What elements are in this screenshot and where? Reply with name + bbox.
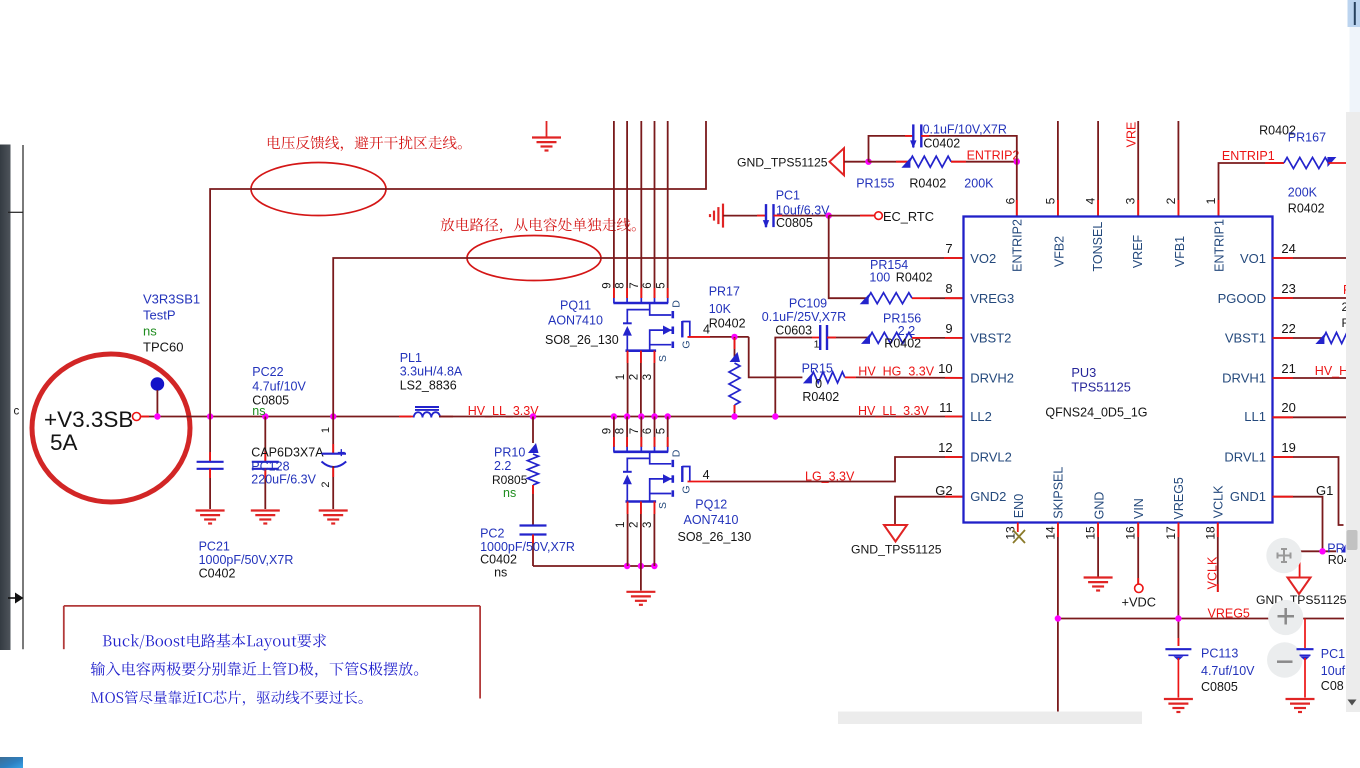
- junction gnd bus 1: [624, 563, 630, 569]
- label PU3: [1071, 365, 1131, 394]
- resistor PR15: [803, 372, 856, 384]
- svg-text:AON7410: AON7410: [684, 513, 739, 527]
- ground PC1: [710, 204, 723, 228]
- svg-text:PQ11: PQ11: [560, 299, 591, 313]
- svg-text:ns: ns: [252, 404, 265, 418]
- net label partial P pin23: [1342, 283, 1352, 330]
- svg-text:EC_RTC: EC_RTC: [883, 209, 934, 224]
- svg-text:1: 1: [615, 374, 627, 380]
- svg-text:LL2: LL2: [970, 409, 992, 424]
- label +VDC: [1122, 594, 1157, 609]
- note box line 3: [91, 691, 363, 706]
- net label VREG5: [1208, 607, 1250, 621]
- ground PC1xx right: [1286, 699, 1315, 712]
- svg-text:R0402: R0402: [896, 271, 933, 285]
- svg-text:5: 5: [655, 428, 667, 434]
- wire VREF pin3: [1137, 121, 1139, 217]
- pin number G1: [1316, 483, 1333, 498]
- transistor PQ12: [613, 447, 689, 502]
- svg-text:LS2_8836: LS2_8836: [400, 379, 457, 393]
- svg-text:PC1: PC1: [776, 189, 800, 203]
- svg-text:2: 2: [628, 374, 640, 380]
- capacitor C0402 0.1uF: [910, 124, 921, 148]
- net label HV_LL_3.3V left: [468, 404, 540, 418]
- svg-text:R0402: R0402: [909, 177, 946, 191]
- svg-text:19: 19: [1281, 440, 1295, 455]
- svg-text:9: 9: [945, 321, 952, 336]
- junction rail PR10: [530, 413, 536, 419]
- svg-text:17: 17: [1164, 526, 1178, 540]
- svg-text:ns: ns: [494, 566, 507, 580]
- ground pin15: [1084, 578, 1113, 591]
- svg-text:GND_TPS51125: GND_TPS51125: [851, 543, 942, 557]
- svg-text:VFB1: VFB1: [1173, 236, 1187, 267]
- svg-text:10: 10: [938, 361, 952, 376]
- svg-text:0.1uF/10V,X7R: 0.1uF/10V,X7R: [923, 123, 1007, 137]
- svg-text:DRVL2: DRVL2: [970, 449, 1012, 464]
- testpoint V3R3SB1 labels: [143, 292, 200, 355]
- capacitor PC113: [1165, 649, 1191, 697]
- resistor PR154: [860, 293, 930, 305]
- svg-text:8: 8: [615, 428, 627, 434]
- label R0402 top: [1259, 124, 1296, 138]
- wire PQ12 source 3: [653, 502, 655, 567]
- svg-text:15: 15: [1084, 526, 1098, 540]
- svg-text:VCLK: VCLK: [1211, 485, 1225, 518]
- junction PC1 EC_RTC: [826, 212, 832, 218]
- wire DRVH1 net: [1273, 377, 1347, 379]
- pin numbers PQ11 source: [615, 374, 654, 380]
- label PQ12: [678, 498, 752, 545]
- svg-text:8: 8: [945, 281, 952, 296]
- resistor PR155: [901, 156, 951, 168]
- svg-text:VO1: VO1: [1240, 251, 1266, 266]
- label 200K R0402 right: [1288, 185, 1325, 215]
- pin number 4 PQ12: [703, 468, 710, 482]
- ground PQ12 source: [626, 592, 655, 605]
- annotation ellipse 1: [251, 163, 386, 216]
- svg-text:2: 2: [320, 481, 332, 487]
- label PC22: [252, 365, 306, 418]
- svg-text:12: 12: [938, 440, 952, 455]
- wire PQ12 source 1: [627, 502, 629, 567]
- capacitor CAP6D3X7A polarized: [322, 417, 347, 510]
- wire PQ12 drain 7: [640, 417, 642, 448]
- resistor PR167: [1284, 157, 1346, 169]
- svg-text:CAP6D3X7A: CAP6D3X7A: [251, 446, 324, 460]
- label GND_TPS51125 top: [737, 156, 828, 170]
- right scrollbar track: [1346, 27, 1360, 712]
- pan button: [1266, 538, 1301, 573]
- svg-text:1000pF/50V,X7R: 1000pF/50V,X7R: [199, 553, 294, 567]
- inductor PL1: [399, 407, 453, 418]
- wire VBST2 net: [912, 337, 964, 339]
- ground arrow GND2: [884, 525, 907, 542]
- net label HV_HG_3.3V: [858, 365, 934, 379]
- resistor PR156: [861, 332, 912, 344]
- wire PQ11 drain 9: [613, 121, 615, 298]
- svg-text:+V3.3SB: +V3.3SB: [44, 407, 133, 432]
- label PR10: [492, 446, 528, 501]
- label PC113: [1201, 646, 1255, 694]
- sheet border line: [22, 145, 24, 649]
- svg-text:ENTRIP1: ENTRIP1: [1222, 149, 1275, 163]
- label PR15: [802, 362, 840, 404]
- junction VREG5 pin17: [1175, 615, 1181, 621]
- svg-text:PL1: PL1: [400, 351, 422, 365]
- svg-text:GND_TPS51125: GND_TPS51125: [1256, 593, 1347, 607]
- svg-text:HV_HG_3.3V: HV_HG_3.3V: [858, 365, 934, 379]
- wire gnd arrow to junction: [844, 161, 869, 163]
- wire VREG5 pin17: [1177, 523, 1179, 647]
- svg-text:5A: 5A: [50, 430, 78, 455]
- svg-text:8: 8: [615, 282, 627, 288]
- svg-text:23: 23: [1281, 281, 1295, 296]
- labels PQ11 D S G: [657, 300, 693, 362]
- wire PQ11 source 3: [653, 351, 655, 417]
- svg-text:C0603: C0603: [775, 324, 812, 338]
- label CAP6D3X7A PC128: [251, 446, 324, 487]
- pin number 4 PQ11: [703, 323, 710, 337]
- svg-text:PC22: PC22: [252, 365, 283, 379]
- transistor PQ11: [613, 298, 689, 351]
- junction rail PC128: [262, 413, 268, 419]
- label PC109: [762, 297, 846, 338]
- svg-text:1: 1: [814, 339, 820, 351]
- svg-text:D: D: [671, 300, 683, 308]
- svg-text:LG_3.3V: LG_3.3V: [805, 470, 855, 484]
- capacitor PC128: [252, 417, 279, 510]
- junction rail mosfet dots: [611, 413, 671, 419]
- wire PQ12 drain 8: [626, 417, 628, 448]
- svg-text:SKIPSEL: SKIPSEL: [1052, 467, 1066, 519]
- svg-text:DRVH1: DRVH1: [1222, 370, 1266, 385]
- svg-text:V3R3SB1: V3R3SB1: [143, 292, 200, 307]
- label PR156: [883, 312, 921, 351]
- pan arrow marker: [8, 593, 24, 604]
- junction rail testpoint: [154, 413, 160, 419]
- IC right pin numbers: [1281, 241, 1295, 455]
- zoom in button: [1268, 600, 1303, 635]
- wire PC2 to ground bus: [533, 565, 655, 567]
- svg-text:11: 11: [939, 400, 953, 415]
- resistor PR pin22 clipped: [1315, 333, 1360, 345]
- wire DRVL1 net: [1273, 457, 1344, 525]
- svg-text:20: 20: [1281, 400, 1295, 415]
- svg-text:C0402: C0402: [923, 137, 960, 151]
- svg-text:HV_LL_3.3V: HV_LL_3.3V: [858, 404, 930, 418]
- wire PQ11 drain 8: [626, 121, 628, 298]
- svg-text:0.1uF/25V,X7R: 0.1uF/25V,X7R: [762, 310, 846, 324]
- svg-text:PC113: PC113: [1201, 646, 1238, 660]
- svg-text:G2: G2: [935, 483, 952, 498]
- svg-text:PR15: PR15: [802, 362, 833, 376]
- label PC1xx right: [1321, 647, 1346, 693]
- capacitor PC1xx right: [1297, 649, 1314, 697]
- wire VFB2 feedback net: [210, 121, 706, 417]
- wire DRVL2 LG_3.3V net: [688, 457, 964, 482]
- wire PC109 branch: [775, 338, 819, 417]
- svg-text:TPC60: TPC60: [143, 340, 183, 355]
- IC right pin names: [1218, 251, 1266, 504]
- note text: discharge path annotation: [441, 218, 636, 233]
- net label ENTRIP1: [1222, 149, 1275, 163]
- svg-text:QFNS24_0D5_1G: QFNS24_0D5_1G: [1045, 405, 1147, 419]
- junction gnd bus 3: [651, 563, 657, 569]
- wire PQ11 source 1: [627, 351, 629, 417]
- net label VREF rotated: [1125, 122, 1139, 148]
- svg-text:VCLK: VCLK: [1206, 556, 1220, 589]
- svg-text:10K: 10K: [709, 302, 732, 316]
- svg-text:SO8_26_130: SO8_26_130: [678, 530, 752, 544]
- svg-text:DRVL1: DRVL1: [1224, 449, 1266, 464]
- svg-text:VREG3: VREG3: [970, 291, 1014, 306]
- svg-text:VIN: VIN: [1132, 498, 1146, 519]
- net label VCLK rotated: [1206, 556, 1220, 589]
- svg-text:VO2: VO2: [970, 251, 996, 266]
- label PR154: [869, 258, 932, 285]
- wire GND pin15: [1097, 523, 1099, 578]
- wire testpoint to rail: [156, 390, 158, 417]
- svg-text:6: 6: [642, 282, 654, 288]
- svg-text:VREG5: VREG5: [1172, 477, 1186, 519]
- wire VCLK pin18: [1217, 523, 1219, 593]
- svg-text:HV_H: HV_H: [1315, 364, 1348, 378]
- wire DRVH2 net: [856, 376, 964, 379]
- ground arrow right: [1288, 578, 1311, 595]
- svg-text:22: 22: [1281, 321, 1295, 336]
- wire LL1 net: [1273, 416, 1347, 418]
- junction rail PC109: [772, 413, 778, 419]
- wire PQ11 gate net: [688, 337, 803, 378]
- junction gnd bus 2: [638, 563, 644, 569]
- wire main rail mid segment: [439, 416, 964, 418]
- pin circle +VDC: [1135, 584, 1143, 592]
- junction rail PR17: [731, 413, 737, 419]
- wire GND1 net: [1273, 497, 1323, 552]
- junction VREG5 skipsel: [1055, 615, 1061, 621]
- svg-text:ns: ns: [503, 486, 516, 500]
- wire gnd to PC1: [723, 215, 766, 217]
- power pin +V3.3SB circle: [133, 413, 141, 421]
- svg-text:VRE: VRE: [1125, 122, 1139, 148]
- svg-text:ENTRIP1: ENTRIP1: [1213, 219, 1227, 272]
- testpoint dot: [151, 377, 165, 391]
- wire PQ12 drain 6: [654, 417, 656, 448]
- ground top: [532, 121, 561, 151]
- wire VFB2 pin5: [1057, 121, 1059, 217]
- label PC1: [776, 189, 830, 230]
- wire C0402 parallel branch: [869, 136, 914, 162]
- svg-text:EN0: EN0: [1012, 494, 1026, 518]
- svg-text:VREG5: VREG5: [1208, 607, 1250, 621]
- svg-text:G: G: [681, 340, 693, 348]
- labels PQ12 D S G: [657, 449, 693, 509]
- svg-text:PR17: PR17: [709, 285, 740, 299]
- wire GND2 net: [895, 497, 964, 525]
- bottom-left app icon: [0, 757, 23, 768]
- resistor PR10: [528, 417, 539, 525]
- svg-text:16: 16: [1124, 526, 1138, 540]
- right scrollbar thumb: [1347, 530, 1358, 550]
- svg-text:9: 9: [602, 282, 614, 288]
- wire PQ12 drain 9: [613, 417, 615, 448]
- wire PQ11 source 2: [640, 351, 642, 417]
- wire PQ11 drain 5: [667, 121, 669, 298]
- svg-text:VBST1: VBST1: [1225, 331, 1266, 346]
- svg-text:VREF: VREF: [1131, 234, 1145, 268]
- svg-text:D: D: [671, 449, 683, 457]
- wire VREG5 bus: [1058, 618, 1344, 620]
- svg-text:C0402: C0402: [199, 567, 236, 581]
- pin circle EC_RTC: [875, 212, 883, 220]
- svg-text:1: 1: [1204, 197, 1218, 204]
- pin numbers PQ11 drain: [602, 282, 668, 288]
- resistor PR clipped right: [1327, 542, 1350, 568]
- wire VO1 net: [1273, 257, 1347, 259]
- svg-text:9: 9: [602, 428, 614, 434]
- wire ENTRIP1 net: [1219, 163, 1284, 217]
- svg-text:PC2: PC2: [480, 527, 504, 541]
- svg-text:TestP: TestP: [143, 308, 176, 323]
- label PR17: [709, 285, 746, 331]
- label PC21: [199, 539, 294, 580]
- label EC_RTC: [883, 209, 934, 224]
- wire gnd bus stub: [640, 566, 642, 591]
- label PL1: [400, 351, 463, 393]
- IC left pin names: [970, 251, 1014, 504]
- label GND_TPS51125 under GND2: [851, 543, 942, 557]
- svg-text:ENTRIP2: ENTRIP2: [1010, 219, 1024, 272]
- wire ENTRIP2 to pin 6: [1016, 162, 1018, 217]
- net label ENTRIP2: [967, 148, 1020, 162]
- label C0402 cap: [923, 123, 1007, 151]
- wire VREG3 net: [829, 216, 868, 299]
- wire main rail left segment: [141, 416, 412, 418]
- wire PC1 to junction: [774, 215, 829, 217]
- svg-text:2: 2: [1164, 197, 1178, 204]
- svg-text:4.7uf/10V: 4.7uf/10V: [252, 379, 306, 393]
- resistor PR17 vertical: [729, 337, 740, 417]
- svg-text:SO8_26_130: SO8_26_130: [545, 333, 619, 347]
- svg-text:S: S: [657, 355, 669, 362]
- pin numbers IC top: [1003, 197, 1218, 204]
- svg-text:R0805: R0805: [492, 473, 528, 487]
- svg-text:TONSEL: TONSEL: [1091, 222, 1105, 272]
- svg-text:R0402: R0402: [709, 317, 746, 331]
- svg-text:ns: ns: [143, 324, 157, 339]
- power emphasis circle: [32, 354, 190, 502]
- svg-text:PC128: PC128: [251, 460, 289, 474]
- wire PQ11 drain 7: [640, 121, 642, 298]
- annotation ellipse 2: [467, 236, 601, 281]
- top-right browser corner: [1348, 0, 1360, 27]
- svg-text:4.7uf/10V: 4.7uf/10V: [1201, 664, 1255, 678]
- net label HV_LL_3.3V right: [858, 404, 930, 418]
- pin numbers PQ12 source: [615, 522, 654, 528]
- label PQ11: [545, 299, 619, 348]
- svg-text:C0402: C0402: [480, 553, 517, 567]
- wire PQ11 drain 6: [654, 121, 656, 298]
- svg-text:2.2: 2.2: [494, 459, 511, 473]
- wire PR154 to pin8: [930, 297, 964, 299]
- svg-text:PQ12: PQ12: [695, 498, 727, 512]
- svg-text:C08: C08: [1321, 679, 1344, 693]
- svg-text:5: 5: [1043, 197, 1057, 204]
- bottom scrollbar track: [838, 712, 1142, 725]
- junction G1: [1319, 548, 1325, 554]
- wire PGOOD net: [1273, 297, 1347, 299]
- wire TONSEL pin4: [1097, 121, 1099, 217]
- svg-text:24: 24: [1281, 241, 1295, 256]
- wire junction to EC_RTC pin: [829, 215, 875, 217]
- zoom out button: [1267, 642, 1302, 677]
- svg-text:GND: GND: [1092, 492, 1106, 520]
- junction ENTRIP2 right: [1014, 159, 1020, 165]
- net label HV_H partial: [1315, 364, 1348, 378]
- svg-text:3: 3: [1124, 197, 1138, 204]
- svg-text:PR167: PR167: [1288, 131, 1326, 145]
- note box line 2: [91, 662, 418, 678]
- svg-text:S: S: [657, 502, 669, 509]
- capacitor PC2: [520, 526, 547, 567]
- IC left pin numbers: [935, 241, 952, 498]
- svg-text:R0402: R0402: [802, 390, 839, 404]
- wire right cap branch: [1304, 619, 1306, 649]
- wire VO2 net: [333, 258, 963, 417]
- label +V3.3SB: [44, 407, 133, 432]
- pin 13 no-connect X: [1013, 523, 1025, 544]
- net label LG_3.3V: [805, 470, 855, 484]
- svg-text:10uf: 10uf: [1321, 664, 1346, 678]
- svg-text:DRVH2: DRVH2: [970, 370, 1014, 385]
- junction ENTRIP2 left: [865, 159, 871, 165]
- wire to GND arrow right: [1299, 551, 1301, 577]
- svg-text:1: 1: [320, 427, 332, 433]
- svg-text:R0402: R0402: [1288, 201, 1325, 215]
- svg-text:ENTRIP2: ENTRIP2: [967, 148, 1020, 162]
- svg-text:PR155: PR155: [856, 177, 894, 191]
- svg-text:2: 2: [628, 522, 640, 528]
- svg-text:200K: 200K: [964, 177, 994, 191]
- svg-text:G1: G1: [1316, 483, 1333, 498]
- svg-text:3: 3: [642, 374, 654, 380]
- svg-text:GND_TPS51125: GND_TPS51125: [737, 156, 828, 170]
- IC top pin names rotated: [1010, 219, 1226, 272]
- svg-text:PR10: PR10: [494, 446, 525, 460]
- junction PQ11 gate: [731, 334, 737, 340]
- sheet zone tick: [8, 211, 23, 213]
- pin numbers PQ12 drain: [602, 428, 668, 434]
- wire cap to PR156: [827, 337, 869, 339]
- label PR155 row: [856, 177, 994, 191]
- svg-text:c: c: [14, 406, 20, 418]
- svg-text:14: 14: [1043, 526, 1057, 540]
- label PC2: [480, 527, 575, 580]
- svg-text:PU3: PU3: [1071, 365, 1096, 380]
- svg-text:PGOOD: PGOOD: [1218, 291, 1266, 306]
- IC bottom pin numbers rotated: [1003, 526, 1217, 540]
- svg-text:C0805: C0805: [776, 216, 813, 230]
- svg-text:200K: 200K: [1288, 185, 1318, 199]
- capacitor PC1: [763, 204, 774, 228]
- svg-text:5: 5: [655, 282, 667, 288]
- note box frame: [64, 606, 480, 699]
- svg-text:G: G: [681, 485, 693, 493]
- ground CAP6D3X7A: [319, 511, 348, 524]
- svg-text:4: 4: [1084, 197, 1098, 204]
- left dark panel bar: [0, 145, 11, 651]
